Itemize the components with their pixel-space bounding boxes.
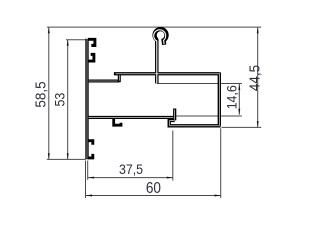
hook 1 (top glazing hook) [88,39,95,45]
hook 4 (wall bottom) [88,154,93,158]
dim line 58,5 [48,27,50,159]
arrow 44,5 down [257,121,259,127]
riser [118,74,121,82]
dim line 44,5 [257,27,259,127]
right wall white [218,73,220,125]
arrow 60 right [215,195,221,197]
riser white [118,75,120,80]
left wall [85,39,88,159]
top flange white [116,73,220,75]
upper web white [88,80,117,82]
dimension lines [49,27,258,195]
web hook [114,119,121,126]
svg-text:44,5: 44,5 [247,65,264,91]
left wall white [86,39,88,159]
dim line 14,6 [238,84,240,115]
arrow 37,5 right [167,177,173,179]
arrow 37,5 left [88,177,94,179]
stem + curl white [154,30,166,83]
stem + curl hook [155,29,167,83]
arrowheads [48,27,259,196]
60 right extension line [220,128,222,198]
37,5 right extension line [172,131,174,181]
dim line 53 [67,40,69,160]
arrow 44,5 up [257,27,259,33]
14,6 top extension line (stem bottom) [157,83,242,85]
right wall [218,72,221,125]
hook 3 (lower wall) [88,141,93,145]
profile: white inner strokes (hollow wall effect) [87,30,220,159]
post [173,109,176,121]
arrow 14,6 down [238,109,240,115]
60 left extension line [85,161,87,199]
bottom web white [88,116,173,118]
dim line 37,5 [88,177,173,179]
53 top extension line (wall top) [66,39,86,41]
arrow 53 up [67,40,69,46]
14,6 bottom extension line (web top) [176,115,242,117]
44,5 bottom extension line (flange bottom) [222,126,262,128]
foot + bottom flange white [170,121,220,126]
arrow 14,6 up [238,84,240,90]
svg-text:14,6: 14,6 [224,85,240,109]
hook 2 [88,54,94,61]
top extension line (hook top, shared by 58,5 and 44,5) [47,26,261,28]
svg-text:58,5: 58,5 [33,81,50,107]
profile: black outer strokes [87,29,221,159]
bottom web [88,116,174,119]
arrow 53 down [67,153,69,159]
top flange [114,72,219,75]
dim line 60 [86,195,221,197]
svg-text:37,5: 37,5 [119,161,143,177]
arrow 58,5 up [48,27,50,33]
upper web [88,80,119,83]
post white [174,110,176,120]
37,5 left extension line [87,161,89,180]
arrow 60 left [86,195,92,197]
extension lines [47,27,261,198]
svg-text:60: 60 [146,180,161,197]
foot + bottom flange [169,120,220,125]
bottom extension line left (wall bottom) [47,158,86,160]
svg-text:53: 53 [52,93,68,107]
arrow 58,5 down [48,153,50,159]
